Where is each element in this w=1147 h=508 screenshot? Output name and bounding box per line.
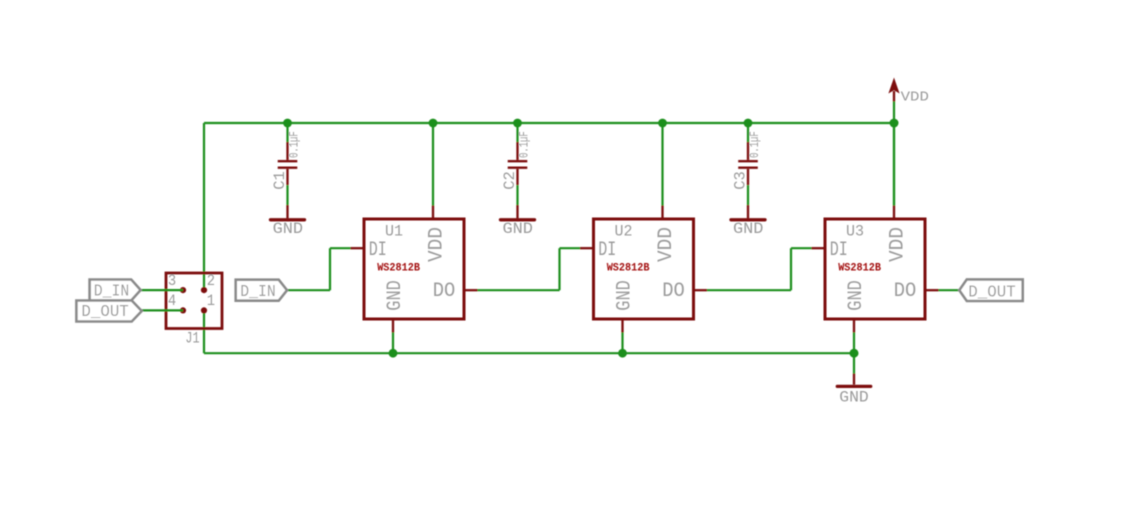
pin number 4 of J1 <box>168 293 176 310</box>
svg-text:WS2812B: WS2812B <box>377 262 420 274</box>
svg-text:GND: GND <box>839 389 868 407</box>
svg-text:0.1µF: 0.1µF <box>518 131 532 158</box>
svg-text:WS2812B: WS2812B <box>838 262 881 274</box>
svg-text:VDD: VDD <box>901 90 929 105</box>
svg-text:GND: GND <box>273 220 303 238</box>
junction GND rail at U3 <box>850 349 859 358</box>
svg-text:3: 3 <box>168 273 176 290</box>
svg-text:DI: DI <box>830 239 848 262</box>
pin label DO of U1 <box>433 280 456 303</box>
wire C3 to GND symbol <box>747 185 749 205</box>
svg-text:D_IN: D_IN <box>94 282 129 301</box>
pin label DI of U3 <box>830 239 848 262</box>
pin label VDD of U1 <box>425 227 447 262</box>
junction GND rail at ground symbol <box>850 349 859 358</box>
label U1 <box>385 222 403 241</box>
capacitor C1 0.1uF <box>278 142 298 185</box>
wire VDD rail to C1 <box>286 123 288 142</box>
label WS2812B value of U1 <box>377 262 420 274</box>
wire VDD rail to U2 VDD pin <box>661 123 663 206</box>
pin DO of U2 <box>694 289 708 291</box>
wire VDD left vertical to J1 pin 2 <box>203 123 205 290</box>
power symbol VDD arrow <box>888 78 899 102</box>
svg-text:U3: U3 <box>846 222 864 241</box>
wire U1 GND pin to bottom rail <box>392 333 394 354</box>
svg-text:GND: GND <box>733 220 763 238</box>
net label D_IN at J1 pin 3 <box>90 280 141 301</box>
pin DI of U1 <box>351 247 365 249</box>
pin VDD of U1 <box>432 206 434 220</box>
wire VDD rail to U3 VDD pin <box>893 123 895 206</box>
connector J1 body <box>166 273 222 329</box>
label C1 <box>271 171 289 190</box>
svg-text:DI: DI <box>369 239 387 262</box>
label GND below C2 <box>503 220 533 238</box>
pin DO of U3 <box>925 289 939 291</box>
pin label VDD of U2 <box>655 227 677 262</box>
IC U1 WS2812B body <box>364 219 464 319</box>
svg-text:VDD: VDD <box>655 227 677 262</box>
wire GND from J1 pin 1 down <box>203 310 205 353</box>
svg-text:GND: GND <box>845 280 868 310</box>
junction VDD rail at U2 <box>658 119 667 128</box>
svg-text:DO: DO <box>433 280 456 303</box>
label VDD <box>901 90 929 105</box>
wire net U2 DO to U3 DI <box>707 248 812 290</box>
svg-text:4: 4 <box>168 293 176 310</box>
wire C1 to GND symbol <box>286 185 288 205</box>
wire VDD arrow stem <box>893 102 895 124</box>
svg-text:0.1µF: 0.1µF <box>288 131 302 158</box>
svg-text:WS2812B: WS2812B <box>607 262 650 274</box>
label U2 <box>615 222 633 241</box>
pin 2 pad of J1 <box>201 287 207 293</box>
label WS2812B value of U2 <box>607 262 650 274</box>
svg-text:2: 2 <box>207 273 215 290</box>
pin label DI of U1 <box>369 239 387 262</box>
wire VDD rail to U3 VDD pin <box>893 123 895 206</box>
svg-text:GND: GND <box>503 220 533 238</box>
label J1 <box>185 330 199 348</box>
junction VDD rail at C1 <box>283 119 292 128</box>
pin label DO of U3 <box>894 280 917 303</box>
label 0.1µF value of C2 <box>518 131 532 158</box>
svg-text:0.1µF: 0.1µF <box>749 131 763 158</box>
IC U2 WS2812B body <box>594 219 694 319</box>
net label D_IN at U1 DI <box>236 280 287 301</box>
svg-text:D_OUT: D_OUT <box>968 283 1016 301</box>
pin 3 pad of J1 <box>180 287 186 293</box>
pin label GND of U1 <box>384 280 407 310</box>
label 0.1µF value of C3 <box>749 131 763 158</box>
pin DI of U2 <box>580 247 594 249</box>
svg-text:J1: J1 <box>185 330 199 348</box>
pin label GND of U3 <box>845 280 868 310</box>
label GND below C3 <box>733 220 763 238</box>
pin DO of U1 <box>464 289 478 291</box>
junction VDD rail at power arrow <box>890 119 899 128</box>
net label D_OUT at J1 pin 4 <box>76 301 141 322</box>
capacitor C3 0.1uF <box>738 142 758 185</box>
ground symbol below C3 <box>731 205 765 220</box>
IC U3 WS2812B body <box>825 219 925 319</box>
wire net D_OUT to J1 pin 4 <box>142 309 183 311</box>
svg-text:DI: DI <box>598 239 616 262</box>
svg-text:GND: GND <box>613 280 636 310</box>
svg-text:GND: GND <box>384 280 407 310</box>
capacitor C2 0.1uF <box>508 142 528 185</box>
junction GND rail at U2 <box>618 349 627 358</box>
pin label DI of U2 <box>598 239 616 262</box>
label U3 <box>846 222 864 241</box>
pin 1 pad of J1 <box>201 307 207 313</box>
svg-text:VDD: VDD <box>886 227 908 262</box>
wire VDD rail to U1 VDD pin <box>432 123 434 206</box>
svg-text:VDD: VDD <box>425 227 447 262</box>
label GND below C1 <box>273 220 303 238</box>
svg-text:U2: U2 <box>615 222 633 241</box>
svg-text:DO: DO <box>894 280 917 303</box>
ground symbol bottom right <box>837 374 870 387</box>
pin DI of U3 <box>812 247 826 249</box>
pin GND of U1 <box>392 319 394 333</box>
wire net U1 DO to U2 DI <box>478 248 581 290</box>
label C3 <box>731 171 749 190</box>
wire U3 GND pin to bottom rail <box>853 333 855 354</box>
label 0.1µF value of C1 <box>288 131 302 158</box>
pin 4 pad of J1 <box>180 307 186 313</box>
svg-text:D_OUT: D_OUT <box>81 303 129 321</box>
wire net D_IN label to U1 DI <box>287 248 351 290</box>
wire net U3 DO to D_OUT label <box>939 289 960 291</box>
pin label GND of U2 <box>613 280 636 310</box>
pin VDD of U3 <box>893 206 895 220</box>
ground symbol below C1 <box>271 205 305 220</box>
wire VDD rail to C3 <box>747 123 749 142</box>
junction VDD rail at U3 <box>890 119 899 128</box>
pin number 2 of J1 <box>207 273 215 290</box>
wire VDD rail to C2 <box>516 123 518 142</box>
wire C2 to GND symbol <box>516 185 518 205</box>
pin VDD of U2 <box>661 206 663 220</box>
junction VDD rail at C2 <box>513 119 522 128</box>
wire GND bottom rail <box>204 352 854 354</box>
wire net D_IN to J1 pin 3 <box>141 289 183 291</box>
wire U2 GND pin to bottom rail <box>621 333 623 354</box>
pin label DO of U2 <box>662 280 685 303</box>
wire VDD top rail <box>204 122 894 124</box>
svg-text:DO: DO <box>662 280 685 303</box>
net label D_OUT at U3 DO <box>959 279 1022 301</box>
junction VDD rail at U1 <box>429 119 438 128</box>
svg-text:U1: U1 <box>385 222 403 241</box>
svg-text:1: 1 <box>207 293 215 310</box>
wire GND rail to ground symbol <box>853 353 855 373</box>
pin number 1 of J1 <box>207 293 215 310</box>
label WS2812B value of U3 <box>838 262 881 274</box>
label GND bottom right <box>839 389 868 407</box>
pin GND of U3 <box>853 319 855 333</box>
pin label VDD of U3 <box>886 227 908 262</box>
pin GND of U2 <box>621 319 623 333</box>
junction VDD rail at C3 <box>744 119 753 128</box>
ground symbol below C2 <box>501 205 535 220</box>
svg-text:D_IN: D_IN <box>240 282 275 301</box>
label C2 <box>501 171 519 190</box>
pin number 3 of J1 <box>168 273 176 290</box>
junction GND rail at U1 <box>389 349 398 358</box>
